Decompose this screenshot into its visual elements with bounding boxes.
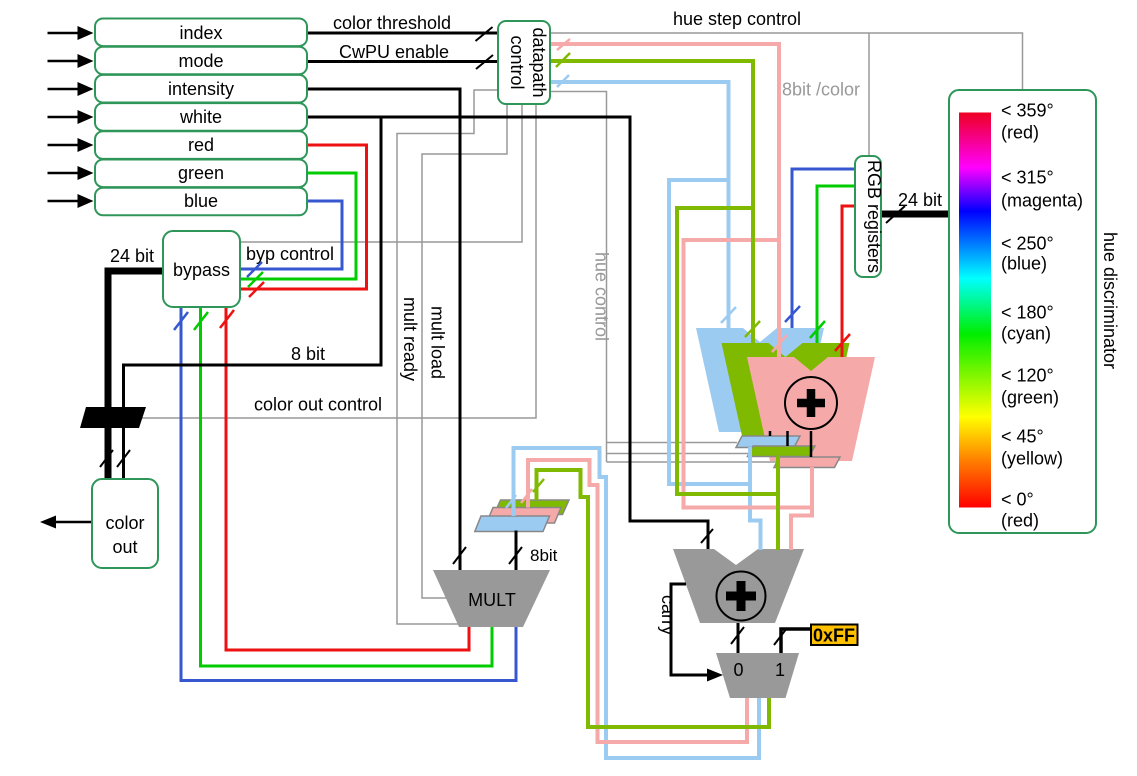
svg-text:< 315°: < 315° (1001, 168, 1054, 188)
svg-text:CwPU enable: CwPU enable (339, 42, 449, 62)
svg-text:(cyan): (cyan) (1001, 324, 1051, 344)
svg-text:< 250°: < 250° (1001, 234, 1054, 254)
svg-text:< 180°: < 180° (1001, 303, 1054, 323)
svg-text:carry: carry (658, 595, 678, 635)
svg-text:hue control: hue control (592, 252, 612, 341)
svg-text:(blue): (blue) (1001, 254, 1047, 274)
svg-text:8bit: 8bit (530, 546, 558, 565)
svg-text:1: 1 (775, 660, 785, 680)
svg-text:(red): (red) (1001, 511, 1039, 531)
svg-text:mode: mode (178, 51, 223, 71)
svg-text:< 0°: < 0° (1001, 490, 1034, 510)
svg-text:out: out (112, 537, 137, 557)
svg-text:byp control: byp control (246, 244, 334, 264)
svg-text:8bit /color: 8bit /color (782, 80, 860, 100)
svg-text:(green): (green) (1001, 388, 1059, 408)
svg-text:mult load: mult load (428, 306, 448, 379)
svg-text:color out control: color out control (254, 395, 382, 415)
svg-text:hue discriminator: hue discriminator (1100, 232, 1120, 369)
svg-text:(red): (red) (1001, 123, 1039, 143)
svg-text:(magenta): (magenta) (1001, 191, 1083, 211)
svg-text:color: color (105, 513, 144, 533)
svg-text:(yellow): (yellow) (1001, 449, 1063, 469)
svg-text:blue: blue (184, 191, 218, 211)
svg-text:green: green (178, 163, 224, 183)
svg-text:white: white (179, 107, 222, 127)
svg-text:mult ready: mult ready (400, 297, 420, 381)
svg-text:< 359°: < 359° (1001, 101, 1054, 121)
svg-text:index: index (179, 23, 222, 43)
svg-text:RGB registers: RGB registers (864, 160, 884, 273)
svg-text:MULT: MULT (468, 590, 516, 610)
svg-text:< 120°: < 120° (1001, 366, 1054, 386)
svg-text:< 45°: < 45° (1001, 427, 1044, 447)
svg-text:bypass: bypass (173, 260, 230, 280)
svg-text:0: 0 (733, 660, 743, 680)
svg-text:control: control (507, 35, 527, 89)
svg-text:hue step control: hue step control (673, 9, 801, 29)
svg-text:intensity: intensity (168, 79, 234, 99)
svg-text:8 bit: 8 bit (291, 344, 325, 364)
svg-text:red: red (188, 135, 214, 155)
svg-text:24 bit: 24 bit (110, 246, 154, 266)
svg-text:color threshold: color threshold (333, 13, 451, 33)
svg-text:0xFF: 0xFF (813, 626, 855, 646)
svg-text:datapath: datapath (529, 27, 549, 97)
